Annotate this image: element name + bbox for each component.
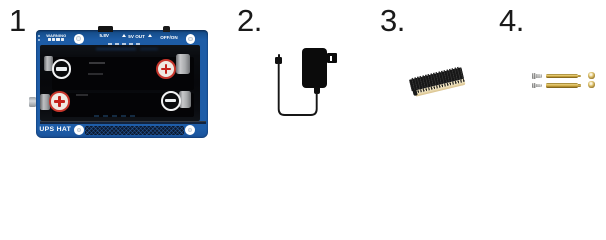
- standoff 1: [546, 74, 577, 78]
- standoff 1 stud: [578, 75, 581, 77]
- UPS HAT silkscreen: [39, 126, 71, 133]
- power adapter body: [302, 48, 327, 88]
- holder bottom seam line: [40, 121, 206, 122]
- WARNING text: [46, 33, 66, 38]
- label 4.: [499, 5, 524, 36]
- faint print slot2: [76, 94, 88, 96]
- mounting hole top-left: [74, 34, 84, 44]
- label 1: [9, 5, 26, 36]
- UPS HAT board: [36, 30, 208, 138]
- minus terminal slot1: [52, 59, 71, 78]
- faint print slot1: [89, 62, 105, 64]
- silkscreen dashes above holder: [108, 43, 140, 45]
- arrow marker right: [148, 34, 152, 37]
- OFF/ON label: [160, 35, 177, 40]
- mounting hole bottom-left: [74, 125, 84, 135]
- top switch: [163, 26, 171, 32]
- screw 2 shaft: [536, 84, 542, 88]
- pin tips top row: [410, 66, 459, 80]
- silkscreen specks top-left: [38, 35, 40, 37]
- arrow marker left: [122, 34, 126, 37]
- minus terminal slot2: [161, 91, 181, 111]
- screw 1 head: [532, 73, 536, 78]
- 5V OUT label: [128, 34, 145, 39]
- battery holder: [40, 45, 200, 122]
- blue glint top of holder: [96, 48, 136, 51]
- standoff 2: [546, 83, 577, 87]
- adapter strain relief: [314, 87, 321, 94]
- 5.8V label: [100, 33, 109, 38]
- contact clip slot2 left: [40, 94, 50, 110]
- contact clip slot1 left: [44, 56, 54, 72]
- mounting hole bottom-right: [185, 125, 195, 135]
- adapter prongs block: [327, 53, 338, 64]
- faint blue print bottom of holder: [94, 115, 135, 117]
- screw 2 head: [532, 83, 536, 88]
- micro usb port left edge: [29, 97, 36, 108]
- adapter cable: [270, 60, 325, 120]
- warning icons: [48, 38, 51, 42]
- slot 1 opening: [52, 57, 194, 91]
- mounting hole top-right: [186, 34, 196, 44]
- label 2.: [237, 5, 262, 36]
- usb plug body: [275, 57, 282, 64]
- nut 2: [588, 81, 595, 88]
- usb plug tip: [278, 54, 281, 57]
- slot 2 opening: [52, 93, 194, 116]
- plus terminal slot2: [49, 91, 70, 112]
- standoff 2 stud: [578, 84, 581, 86]
- header black body: [408, 67, 463, 91]
- contact clip slot1 right: [176, 54, 190, 73]
- plus terminal slot1: [156, 59, 176, 79]
- GPIO pad field: [85, 126, 184, 135]
- beige insulator strip: [414, 78, 466, 96]
- top connector: [98, 26, 113, 32]
- pin header: [408, 64, 467, 97]
- label 3.: [380, 5, 405, 36]
- contact clip slot2 right: [179, 91, 191, 108]
- left end cap: [412, 88, 418, 95]
- pin legs over beige: [414, 78, 465, 93]
- nut 1: [588, 72, 595, 79]
- screw 1 shaft: [536, 74, 542, 78]
